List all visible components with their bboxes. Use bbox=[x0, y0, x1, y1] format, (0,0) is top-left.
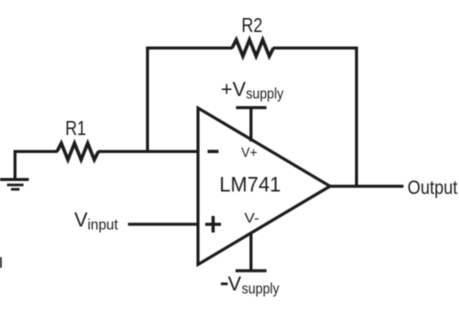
label +Vsupply bbox=[221, 79, 284, 103]
svg-text:Output: Output bbox=[408, 178, 459, 199]
svg-text:+V: +V bbox=[221, 79, 247, 101]
svg-text:supply: supply bbox=[246, 86, 284, 103]
op-amp U1 triangle bbox=[198, 108, 330, 265]
power -Vsupply rail bar bbox=[236, 269, 267, 272]
power +Vsupply rail bar bbox=[236, 106, 267, 109]
wire feedback left branch bbox=[148, 48, 233, 153]
svg-text:R1: R1 bbox=[65, 118, 86, 140]
pin V+ wire bbox=[250, 107, 253, 142]
pin V- wire bbox=[250, 232, 253, 271]
svg-text:V: V bbox=[228, 274, 242, 296]
wire ground to R1 bbox=[14, 150, 58, 153]
svg-text:input: input bbox=[88, 217, 119, 234]
ground bbox=[0, 152, 29, 190]
svg-text:V-: V- bbox=[244, 210, 259, 225]
svg-text:LM741: LM741 bbox=[219, 173, 281, 196]
resistor R1 bbox=[57, 143, 98, 160]
resistor R2 bbox=[232, 40, 273, 57]
stray clipped glyph at left edge bbox=[0, 257, 2, 268]
wire feedback right branch bbox=[273, 48, 357, 186]
node Vinput label bbox=[74, 210, 119, 234]
wire output bbox=[328, 185, 404, 188]
svg-text:supply: supply bbox=[242, 280, 280, 297]
non-inverting input marker + bbox=[205, 216, 221, 233]
inverting input marker - bbox=[208, 150, 219, 153]
wire Vinput to non-inverting input bbox=[128, 223, 198, 226]
wire R1 to inverting input bbox=[98, 150, 198, 153]
svg-text:V: V bbox=[74, 210, 88, 232]
svg-text:V+: V+ bbox=[241, 144, 257, 160]
label -Vsupply bbox=[221, 274, 280, 298]
svg-text:R2: R2 bbox=[242, 15, 263, 37]
